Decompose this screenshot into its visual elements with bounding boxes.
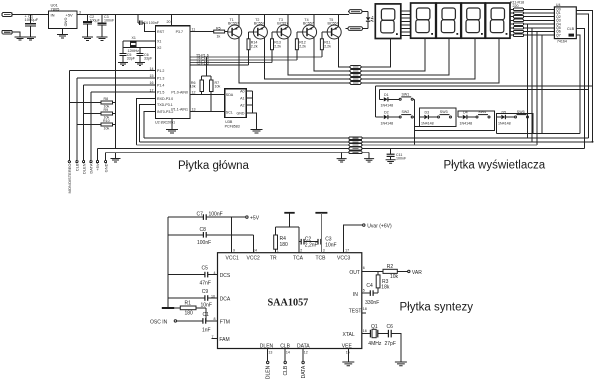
wire segment tap 1 xyxy=(527,24,529,138)
svg-text:C9: C9 xyxy=(202,289,209,295)
svg-text:3: 3 xyxy=(323,249,325,253)
MCU xyxy=(67,14,263,193)
svg-text:BC557: BC557 xyxy=(328,21,339,25)
svg-text:74164: 74164 xyxy=(557,39,567,43)
svg-text:100µF: 100µF xyxy=(90,18,101,22)
power bar symbol (TR/TCA) xyxy=(284,212,294,214)
terminal +5V xyxy=(96,161,98,163)
wire U2 P1.6 digit line xyxy=(190,56,322,58)
wire U3 GND xyxy=(246,113,256,129)
resistor R5 1k xyxy=(214,30,225,33)
svg-text:DLEN: DLEN xyxy=(81,163,86,174)
resistor R4 180 xyxy=(275,227,277,235)
wire ground rail left xyxy=(167,217,169,308)
resistor base T5 2k2 xyxy=(322,32,327,39)
svg-text:C4: C4 xyxy=(366,283,373,289)
IC U2 89C2051 xyxy=(156,26,191,119)
terminal DATA xyxy=(90,161,92,163)
wire bus row2 xyxy=(140,141,593,143)
terminal GND xyxy=(105,161,107,163)
wire W2 common drop xyxy=(361,38,425,71)
svg-text:3: 3 xyxy=(79,11,81,15)
wire bus row4 (+5V) xyxy=(98,148,585,150)
node column DATA xyxy=(90,92,92,161)
diode D5 1N4148 xyxy=(497,116,502,118)
svg-text:33pF: 33pF xyxy=(144,56,153,60)
transistor T2 BC557 xyxy=(253,25,267,39)
svg-text:18k: 18k xyxy=(381,285,390,291)
svg-text:RST: RST xyxy=(157,30,165,34)
node column MONO/STEREO xyxy=(68,71,70,161)
wire bus row3 xyxy=(136,144,536,146)
svg-text:FTM: FTM xyxy=(220,319,230,325)
svg-text:C7: C7 xyxy=(197,212,204,218)
svg-text:8: 8 xyxy=(214,317,216,321)
svg-text:12: 12 xyxy=(192,90,196,94)
resistor R10 10k xyxy=(77,123,116,125)
svg-text:R10: R10 xyxy=(103,119,110,123)
svg-text:D5: D5 xyxy=(502,111,507,115)
svg-text:U4: U4 xyxy=(556,3,561,7)
svg-text:P1.2: P1.2 xyxy=(157,69,164,73)
svg-text:2: 2 xyxy=(300,249,302,253)
svg-text:7805: 7805 xyxy=(51,6,61,11)
terminal MONO/STEREO xyxy=(68,161,70,163)
ground (bus left of connector) xyxy=(341,152,343,158)
wire W5 common drop xyxy=(361,38,499,83)
resistor R1 180 xyxy=(174,307,180,309)
svg-text:VCC2: VCC2 xyxy=(247,256,261,262)
svg-text:+5V: +5V xyxy=(250,216,260,222)
svg-text:R8: R8 xyxy=(104,97,109,101)
capacitor C1 1nF xyxy=(202,318,204,324)
crystal X1 12MHz xyxy=(123,41,156,48)
display W3 xyxy=(436,3,461,38)
wire U4 MR xyxy=(576,35,580,134)
node column CLB xyxy=(76,78,78,161)
svg-text:A2: A2 xyxy=(240,104,244,108)
wire T3 collector down xyxy=(288,37,350,75)
svg-text:4MHz: 4MHz xyxy=(368,341,382,347)
svg-text:100nF: 100nF xyxy=(396,157,407,161)
svg-text:FAM: FAM xyxy=(219,337,229,343)
cell D3/SW3 loop xyxy=(414,108,456,127)
wire R5 to T1 base xyxy=(225,31,228,34)
wire TCA xyxy=(298,227,300,253)
wire U2 P3.7 to R5 xyxy=(190,31,214,33)
svg-text:CLB: CLB xyxy=(567,27,575,31)
wire bus row1 xyxy=(144,137,588,139)
svg-text:100nF: 100nF xyxy=(104,18,115,22)
capacitor C5 33p xyxy=(122,41,124,53)
wire TR top link xyxy=(276,226,299,228)
svg-text:9: 9 xyxy=(233,249,235,253)
capacitor C6 33p xyxy=(139,48,141,54)
svg-text:15: 15 xyxy=(346,351,350,355)
svg-text:1N4148: 1N4148 xyxy=(421,121,434,125)
capacitor C4 100nF (reset) xyxy=(138,14,139,22)
wire SW1 to common xyxy=(413,98,414,100)
svg-text:DATA: DATA xyxy=(297,344,310,350)
svg-text:P1.1-AIN1: P1.1-AIN1 xyxy=(171,108,188,112)
svg-text:C4 100nF: C4 100nF xyxy=(143,21,160,25)
capacitor C1 1000uF xyxy=(30,14,32,23)
svg-text:SDA: SDA xyxy=(226,93,234,97)
wire U2 P3.1 wrap xyxy=(140,105,156,142)
svg-text:20: 20 xyxy=(167,20,171,24)
regulator U01 7805 xyxy=(49,11,78,29)
transistor T4 BC557 xyxy=(303,25,317,39)
svg-text:TXD-P3.1: TXD-P3.1 xyxy=(157,103,173,107)
svg-text:16: 16 xyxy=(150,81,154,85)
svg-text:XTAL: XTAL xyxy=(343,332,355,338)
svg-text:2,2nF: 2,2nF xyxy=(305,242,318,248)
svg-text:Uvar (+6V): Uvar (+6V) xyxy=(367,224,392,230)
wire +5V rail xyxy=(77,13,349,15)
svg-text:100nF: 100nF xyxy=(209,212,223,218)
svg-text:VAR: VAR xyxy=(412,270,422,276)
svg-text:DATA: DATA xyxy=(89,163,94,173)
svg-text:+5V: +5V xyxy=(95,163,100,171)
wire U3 address pins tied xyxy=(246,91,252,113)
svg-text:A0: A0 xyxy=(240,90,244,94)
DRIVERS xyxy=(190,14,361,84)
wire segment tap 3 xyxy=(536,32,538,146)
connector upper (main-display) xyxy=(350,66,361,85)
wire U2 P3.2 wrap xyxy=(144,112,155,139)
wire T4 collector down xyxy=(314,37,350,71)
display W4 xyxy=(461,3,485,38)
svg-text:33pF: 33pF xyxy=(127,56,136,60)
svg-text:12: 12 xyxy=(304,351,308,355)
resistor network R11-R18 220 xyxy=(510,0,554,36)
capacitor C3 100nF xyxy=(101,14,103,22)
wire SCL (U2 P1.1 to U3) xyxy=(190,111,225,113)
svg-text:180: 180 xyxy=(185,311,194,317)
wire VCC1 xyxy=(230,217,232,253)
svg-text:15: 15 xyxy=(150,74,154,78)
svg-text:100nF: 100nF xyxy=(197,240,211,246)
svg-text:2,2k: 2,2k xyxy=(299,44,306,48)
diode D2 1N4148 xyxy=(376,116,384,118)
svg-text:SAA1057: SAA1057 xyxy=(268,298,309,309)
svg-text:VCC1: VCC1 xyxy=(226,256,240,262)
svg-text:17: 17 xyxy=(345,249,349,253)
capacitor C3 10nF xyxy=(317,239,319,245)
svg-text:P3.7: P3.7 xyxy=(176,30,183,34)
svg-text:Płytka syntezy: Płytka syntezy xyxy=(400,302,474,314)
svg-text:1N4148: 1N4148 xyxy=(460,121,473,125)
svg-text:Q7: Q7 xyxy=(556,33,561,37)
wire U2 P1.3 digit line xyxy=(190,64,249,66)
svg-text:17: 17 xyxy=(150,88,154,92)
svg-text:16: 16 xyxy=(363,329,367,333)
ground (C5) xyxy=(118,62,128,65)
wire T4 emitter to rail xyxy=(313,14,315,26)
capacitor C2 2.2nF xyxy=(299,241,301,243)
wire ZL1 to U01 xyxy=(12,13,48,15)
wire C4 to RST pin xyxy=(142,23,156,32)
wire VCC3 to Uvar xyxy=(344,225,363,253)
svg-text:X1: X1 xyxy=(132,36,136,40)
svg-text:1N4148: 1N4148 xyxy=(381,104,394,108)
switch SW2 xyxy=(399,116,401,118)
svg-text:BC557: BC557 xyxy=(303,21,314,25)
terminal CLB xyxy=(76,161,78,163)
ground (C3) xyxy=(97,37,108,40)
wire T5 collector down xyxy=(338,37,350,67)
svg-text:10nF: 10nF xyxy=(325,242,336,248)
svg-text:DCA: DCA xyxy=(220,297,231,303)
svg-text:MONO/STEREO: MONO/STEREO xyxy=(67,164,72,194)
svg-text:13: 13 xyxy=(268,351,272,355)
svg-text:10k: 10k xyxy=(215,85,221,89)
capacitor C2 100uF xyxy=(87,14,89,21)
wire T1 emitter to rail xyxy=(238,14,240,26)
terminal DLEN xyxy=(83,161,85,163)
wire segment tap 2 xyxy=(531,28,533,142)
svg-text:VCC3: VCC3 xyxy=(337,256,351,262)
svg-text:Q1: Q1 xyxy=(371,324,378,330)
connector display GND (lower box) xyxy=(348,27,363,31)
svg-text:C5: C5 xyxy=(202,265,209,271)
svg-text:P1.0-AIN0: P1.0-AIN0 xyxy=(171,91,188,95)
IC U5 SAA1057 xyxy=(218,253,362,349)
ground (bus right of connector) xyxy=(368,152,370,158)
svg-text:R5: R5 xyxy=(216,26,221,30)
svg-text:1k: 1k xyxy=(217,35,221,39)
ground (C6) xyxy=(395,362,407,366)
wire matrix left column A xyxy=(375,86,377,117)
LED D6 xyxy=(367,12,369,17)
svg-text:14: 14 xyxy=(253,249,257,253)
svg-text:2,2k: 2,2k xyxy=(324,44,331,48)
svg-text:PCF8583: PCF8583 xyxy=(225,124,240,128)
resistor R6 10k pullup xyxy=(200,80,204,91)
cell D5/SW5 loop xyxy=(497,114,534,134)
resistor base T2 2k2 xyxy=(249,32,254,39)
capacitor C8 100nF xyxy=(168,234,203,236)
svg-text:Płytka wyświetlacza: Płytka wyświetlacza xyxy=(444,159,546,171)
svg-text:TR: TR xyxy=(270,256,277,262)
switch SW5 xyxy=(515,116,517,118)
wire matrix feed B xyxy=(380,89,589,91)
ground (U2) xyxy=(171,118,173,129)
svg-text:SCL: SCL xyxy=(226,110,233,114)
ground (C1) xyxy=(25,37,36,40)
svg-text:BC557: BC557 xyxy=(277,21,288,25)
resistor R2 10k xyxy=(383,269,397,273)
svg-text:DATA: DATA xyxy=(301,365,307,378)
svg-text:IN: IN xyxy=(51,12,55,17)
diode D4 1N4148 xyxy=(458,116,463,118)
transistor T1 BC557 xyxy=(228,25,242,39)
svg-text:5: 5 xyxy=(363,289,365,293)
wires U2 P1 pins to left column xyxy=(69,71,155,92)
wire T1 collector down xyxy=(239,37,350,83)
svg-text:D2: D2 xyxy=(384,111,389,115)
svg-text:D4: D4 xyxy=(463,111,468,115)
svg-text:A1: A1 xyxy=(240,97,244,101)
resistor R8 10k xyxy=(69,102,115,104)
MATRIX xyxy=(376,86,593,145)
pin 20 VCC xyxy=(170,14,172,25)
svg-text:10k: 10k xyxy=(190,85,196,89)
wire matrix common return xyxy=(413,99,415,145)
wire matrix left column B xyxy=(379,90,381,100)
ground (C2) xyxy=(82,37,93,40)
wire +5V feed vertical xyxy=(115,14,117,148)
wire TCB xyxy=(320,213,322,253)
svg-text:14: 14 xyxy=(150,67,154,71)
diode D3 1N4148 xyxy=(420,116,425,118)
svg-text:47nF: 47nF xyxy=(200,281,211,287)
svg-text:OUT: OUT xyxy=(349,270,360,276)
connector ZL1 (12V input) xyxy=(2,13,12,17)
svg-text:DLEN: DLEN xyxy=(260,344,274,350)
svg-text:P1.4: P1.4 xyxy=(157,84,164,88)
svg-text:10k: 10k xyxy=(390,274,399,280)
svg-text:TCB: TCB xyxy=(316,256,327,262)
wire bus row5 (GND) xyxy=(106,151,370,153)
svg-text:6: 6 xyxy=(363,266,365,270)
svg-text:P1.5: P1.5 xyxy=(157,91,164,95)
wire U4 clock xyxy=(576,28,584,148)
resistor base T4 2k2 xyxy=(297,32,303,39)
ground (U01) xyxy=(62,29,64,35)
switch SW1 xyxy=(399,98,401,100)
wire SDA (U2 P1.0 to U3) xyxy=(190,94,225,96)
wire W4 common drop xyxy=(361,38,475,79)
IC U4 74164 xyxy=(554,7,576,39)
power bar symbol (TCB) xyxy=(315,212,327,214)
svg-text:SW2: SW2 xyxy=(402,110,410,114)
wire pullup tops xyxy=(202,57,212,76)
display W5 xyxy=(486,3,510,38)
svg-text:OSC IN: OSC IN xyxy=(150,319,168,325)
resistor R9 10k xyxy=(84,113,116,115)
transistor T5 BC557 xyxy=(327,25,341,39)
ground (C6) xyxy=(135,62,145,65)
display W2 xyxy=(411,3,436,38)
svg-text:R2: R2 xyxy=(387,264,394,270)
svg-text:SW1: SW1 xyxy=(402,92,410,96)
resistor base T3 2k2 xyxy=(272,32,277,39)
svg-text:TEST: TEST xyxy=(349,308,362,314)
svg-text:SW4: SW4 xyxy=(478,110,486,114)
wire T5 emitter to rail xyxy=(337,14,339,26)
svg-text:SW3: SW3 xyxy=(440,110,448,114)
wire U2 P1.4 digit line xyxy=(190,62,272,64)
svg-text:1000µF: 1000µF xyxy=(25,17,39,22)
capacitor C11 100nF xyxy=(390,149,392,154)
svg-text:2,2k: 2,2k xyxy=(251,44,258,48)
wire T2 collector down xyxy=(265,37,350,79)
svg-text:1nF: 1nF xyxy=(202,327,211,333)
IC U3 PCF8583 xyxy=(225,89,246,118)
svg-text:C6: C6 xyxy=(387,324,394,330)
svg-text:C1: C1 xyxy=(203,312,210,318)
PSU xyxy=(2,2,349,40)
ground bar (left rail) xyxy=(162,307,174,309)
svg-text:BC557: BC557 xyxy=(254,21,265,25)
svg-text:C8: C8 xyxy=(200,227,207,233)
svg-text:27pF: 27pF xyxy=(385,341,396,347)
svg-text:D3: D3 xyxy=(425,111,430,115)
DISPLAY xyxy=(346,0,594,148)
wire T3 emitter to rail xyxy=(287,14,289,26)
svg-text:220: 220 xyxy=(513,4,519,8)
svg-text:P1.3: P1.3 xyxy=(157,76,164,80)
svg-text:X1: X1 xyxy=(157,40,161,44)
capacitor C7 100nF xyxy=(168,216,203,218)
svg-text:VEE: VEE xyxy=(342,344,353,350)
svg-text:14: 14 xyxy=(286,351,290,355)
svg-text:DCS: DCS xyxy=(220,273,231,279)
connector ZL2 (GND input) xyxy=(2,30,12,34)
svg-text:R1: R1 xyxy=(185,301,192,307)
svg-text:13: 13 xyxy=(192,108,196,112)
resistor R7 10k pullup xyxy=(210,80,214,91)
svg-text:GND: GND xyxy=(64,18,69,27)
ground (U3) xyxy=(251,129,263,132)
svg-text:180: 180 xyxy=(280,242,289,248)
terminal VAR xyxy=(408,270,410,272)
terminal +5V xyxy=(246,216,248,218)
switch SW4 xyxy=(476,116,478,118)
svg-text:Płytka główna: Płytka główna xyxy=(178,160,250,172)
wire U2 P3.0 wrap xyxy=(136,99,155,146)
BUS xyxy=(98,137,593,172)
svg-text:1: 1 xyxy=(277,249,279,253)
svg-text:330nF: 330nF xyxy=(365,300,379,306)
ground (local near GND terminal) xyxy=(115,152,117,158)
svg-text:1N4148: 1N4148 xyxy=(498,121,511,125)
wire T2 emitter to rail xyxy=(264,14,266,26)
wire segment tap 4 xyxy=(541,35,543,133)
svg-text:18: 18 xyxy=(363,307,367,311)
svg-text:10k: 10k xyxy=(104,126,110,130)
wire W1 common drop xyxy=(361,39,391,68)
svg-text:RXD-P3.0: RXD-P3.0 xyxy=(157,97,173,101)
display W1 (7-seg) xyxy=(375,4,401,39)
capacitor C6 27pF xyxy=(387,330,389,338)
svg-text:GND: GND xyxy=(237,111,245,115)
svg-text:SW5: SW5 xyxy=(517,110,525,114)
svg-text:R9: R9 xyxy=(104,108,109,112)
ground (input) xyxy=(15,37,26,40)
transistor T3 BC557 xyxy=(277,25,291,39)
svg-text:DLEN: DLEN xyxy=(266,365,272,379)
svg-text:CLB: CLB xyxy=(283,365,289,375)
wire U2 P1.5 digit line xyxy=(190,59,297,61)
svg-text:IN: IN xyxy=(353,292,358,298)
node column DLEN xyxy=(83,85,85,161)
wire ladder W1-W2 segments xyxy=(401,11,411,35)
wire U4 pin B serial xyxy=(576,14,588,138)
wire W3 common drop xyxy=(361,38,449,75)
wire VCC2 xyxy=(253,235,255,253)
connector display +5V (upper box) xyxy=(349,10,362,14)
SAA xyxy=(150,212,473,380)
wire matrix feed A xyxy=(376,85,593,87)
svg-text:GND: GND xyxy=(103,163,108,172)
svg-text:CLB: CLB xyxy=(75,163,80,171)
wire ZL2 to ground xyxy=(12,32,20,37)
resistor R3 18k xyxy=(377,271,379,275)
svg-text:TCA: TCA xyxy=(293,256,304,262)
svg-text:2,2k: 2,2k xyxy=(274,44,281,48)
